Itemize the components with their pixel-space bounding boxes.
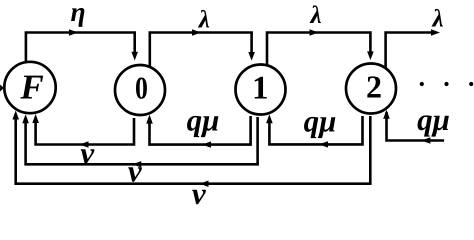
arrowhead incoming to F from left edge [0,85,4,92]
svg-text:1: 1 [252,71,269,107]
wire nu 1 to F (level 2) [26,117,258,164]
svg-text:ν: ν [80,136,95,171]
arrowhead lambda1 mid (right) [192,29,201,35]
arrowhead qmu2 into 1 (up) [266,114,273,123]
label lambda 2 [309,2,321,29]
arrowhead nu3 mid (left) [200,181,209,187]
label nu 1 [80,136,95,171]
label lambda 3 [431,6,443,33]
label q-mu 1 [187,103,220,138]
label lambda 1 [198,7,210,34]
wire q-mu 1 to 0 (level 1) [150,116,251,145]
state 2 [346,64,396,114]
wire nu 0 to F (level 1) [36,118,134,145]
arrowhead eta mid (right) [69,29,78,35]
wire lambda 0 to 1 (top arc) [150,33,252,69]
state 1 [236,65,286,115]
arrowhead nu2 mid (left) [132,161,141,167]
arrowhead qmu1 mid (left) [202,141,211,147]
arrowhead nu3 into F (up) [12,111,19,120]
wire lambda 1 to 2 (top arc) [267,33,370,68]
state F [4,62,55,113]
arrowhead lambda1 into 1 (down) [248,52,255,61]
wire lambda 2 to next (top arc, exits right) [386,33,431,71]
svg-text:ν: ν [192,176,207,211]
ellipsis dot 2 [444,82,448,86]
label 2 [366,69,382,105]
svg-text:2: 2 [366,69,382,105]
label 0 [135,71,148,106]
arrowhead qmu1 into 0 (up) [146,115,153,124]
label q-mu 3 [417,102,450,137]
arrowhead qmu3 mid (left) [421,137,430,143]
label F [19,68,43,107]
wire q-mu incoming to 2 (from right) [387,112,445,141]
svg-text:ν: ν [128,154,143,189]
label eta [70,0,85,27]
svg-text:λ: λ [198,7,210,34]
wire q-mu 2 to 1 (level 1) [269,116,362,144]
svg-text:η: η [70,0,85,27]
arrowhead nu1 into F (up) [32,114,39,123]
wire eta F to 0 (top arc) [26,33,135,67]
label nu 2 [128,154,143,189]
ellipsis dot 3 [469,82,473,86]
svg-text:qμ: qμ [187,103,220,138]
ellipsis dot 1 [420,82,424,86]
arrowhead lambda2 mid (right) [310,29,319,35]
arrowhead qmu3 into 2 (up) [383,110,390,119]
label nu 3 [192,176,207,211]
svg-text:λ: λ [309,2,321,29]
svg-text:qμ: qμ [304,104,337,139]
svg-text:0: 0 [135,71,148,106]
arrowhead qmu2 mid (left) [319,141,328,147]
svg-text:qμ: qμ [417,102,450,137]
label q-mu 2 [304,104,337,139]
svg-text:F: F [19,68,43,107]
arrowhead lambda3 end (right) [431,29,440,35]
label 1 [252,71,269,107]
state 0 [115,65,165,115]
arrowhead nu2 into F (up) [22,114,29,123]
arrowhead nu1 mid (left) [80,141,89,147]
arrowhead lambda2 into 2 (down) [367,51,374,60]
wire nu 2 to F (level 3) [16,114,371,184]
arrowhead eta into 0 (down) [131,52,138,61]
svg-text:λ: λ [431,6,443,33]
